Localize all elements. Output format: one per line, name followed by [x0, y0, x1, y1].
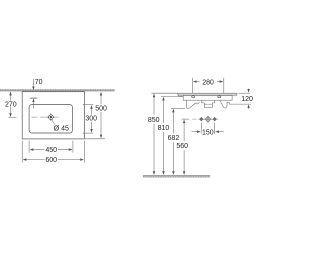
dim 600 (bottom outer): [22, 141, 84, 163]
drain centerline dashes: [32, 116, 59, 118]
svg-text:70: 70: [35, 79, 43, 86]
outlet target symbol: [205, 116, 212, 123]
svg-text:682: 682: [168, 135, 180, 142]
fixing hole right: [218, 96, 221, 98]
svg-text:560: 560: [176, 143, 188, 150]
drain hole target symbol: [47, 113, 55, 121]
svg-text:300: 300: [85, 116, 97, 123]
dim 560 (floor to bolt line): [182, 119, 190, 174]
dim 810 (floor to fascia lip): [161, 96, 183, 174]
leader to drain label: [52, 119, 55, 125]
fixing bolt left symbol: [199, 117, 203, 121]
dim 300 (right inner): [83, 105, 94, 133]
dim 70 (wall to tap hole): [32, 79, 34, 109]
dim 150 (bolt spacing): [192, 123, 224, 134]
fixing hole left: [192, 96, 195, 98]
svg-text:Ø 45: Ø 45: [54, 126, 69, 133]
basin inner bowl (rounded rect): [29, 105, 72, 133]
svg-text:810: 810: [158, 125, 170, 132]
svg-text:280: 280: [202, 80, 214, 87]
dim 500 (right outer): [85, 92, 105, 139]
dim 450 (bottom inner): [29, 141, 73, 153]
floor band: [143, 175, 210, 177]
basin rim slab (side view): [178, 93, 237, 95]
svg-text:600: 600: [45, 157, 57, 164]
fixing bolt right symbol: [213, 117, 217, 121]
basin body fascia: [183, 95, 232, 100]
dim 270 (left): [8, 92, 16, 117]
tap hole tick: [30, 97, 37, 99]
underside right foot and rear bottom line: [220, 100, 251, 108]
wall hatched band (left view): [0, 89, 115, 91]
basin outer rectangle: [22, 92, 84, 139]
dim 280 (top): [193, 78, 224, 93]
svg-text:500: 500: [95, 106, 107, 113]
drain trap under basin: [202, 100, 215, 107]
svg-text:270: 270: [5, 101, 17, 108]
hidden dashes under fascia: [188, 100, 202, 102]
bolt centerline dashes: [192, 118, 218, 120]
dim 850 (floor to rim): [152, 93, 179, 174]
rim front lip: [178, 95, 183, 96]
svg-text:150: 150: [202, 129, 214, 136]
svg-text:850: 850: [148, 117, 160, 124]
underside left foot: [186, 100, 199, 108]
dim 120 (right): [238, 89, 250, 109]
dim 682 (floor to foot bottom): [171, 108, 185, 174]
svg-text:120: 120: [241, 96, 253, 103]
svg-text:450: 450: [45, 147, 57, 154]
